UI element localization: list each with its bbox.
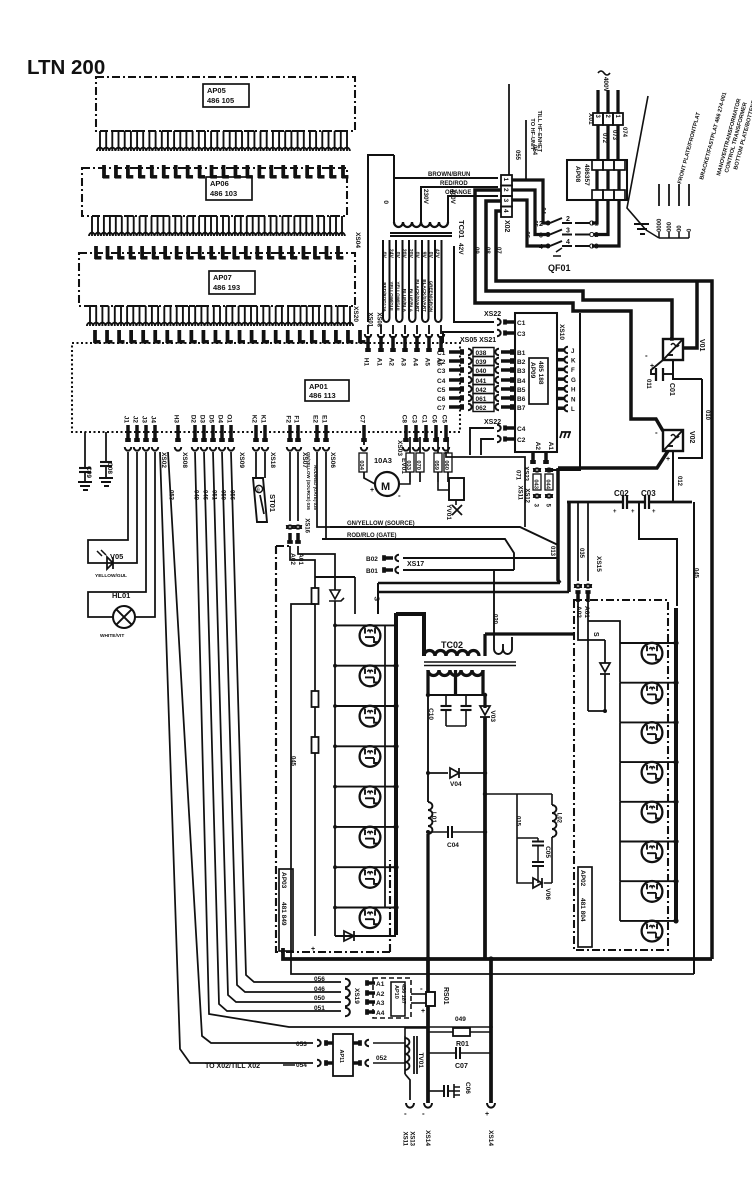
source rail and S label bbox=[377, 583, 379, 614]
TC01 secondary hairpin windings with voltage and colour labels bbox=[383, 240, 390, 322]
capacitor C06 with screen bbox=[428, 1090, 444, 1092]
bold pin row below AP06 bbox=[94, 246, 98, 259]
svg-text:XS22: XS22 bbox=[484, 311, 501, 318]
C10 rail bbox=[428, 694, 485, 696]
wire 015 and L02 C05 V06 block bbox=[485, 793, 552, 795]
svg-text:052: 052 bbox=[376, 1055, 387, 1062]
long wire bundle from AP01 down bbox=[168, 452, 313, 1043]
svg-text:C7: C7 bbox=[358, 415, 365, 424]
label AP03 481 849 bbox=[279, 869, 293, 951]
svg-text:0: 0 bbox=[382, 200, 389, 204]
block AP10 456 187 bbox=[373, 978, 411, 1018]
svg-text:+: + bbox=[652, 509, 656, 515]
svg-text:24V: 24V bbox=[387, 249, 393, 259]
svg-text:O1: O1 bbox=[225, 414, 232, 423]
svg-text:05: 05 bbox=[531, 220, 537, 227]
svg-text:V06: V06 bbox=[544, 888, 551, 900]
svg-text:42V: 42V bbox=[433, 249, 439, 259]
ground at AP09 bbox=[560, 432, 571, 438]
board AP09 485 188 bbox=[515, 313, 557, 452]
svg-text:A4: A4 bbox=[411, 358, 418, 367]
diode V07 bottom bbox=[335, 935, 396, 937]
inductor L01 bbox=[427, 773, 429, 802]
svg-text:XS03: XS03 bbox=[396, 440, 403, 456]
inductor L02 bbox=[551, 794, 553, 805]
terminal minus XS14 bbox=[424, 1103, 432, 1108]
svg-text:GREEN/GRON: GREEN/GRON bbox=[428, 281, 433, 313]
svg-text:θ: θ bbox=[257, 488, 260, 494]
AP03 FET cells bbox=[335, 624, 396, 626]
svg-text:YELLOW/GUL: YELLOW/GUL bbox=[389, 281, 394, 312]
svg-text:038: 038 bbox=[476, 350, 487, 357]
svg-text:000: 000 bbox=[664, 222, 670, 233]
svg-text:K: K bbox=[571, 358, 576, 365]
svg-text:485 188: 485 188 bbox=[537, 361, 544, 385]
svg-text:2: 2 bbox=[502, 188, 509, 192]
svg-text:TV01: TV01 bbox=[417, 1052, 424, 1068]
wire 045 left branch bbox=[291, 604, 694, 974]
terminal plus XS14 bbox=[487, 1103, 495, 1108]
AP03 internal top net bbox=[290, 546, 315, 577]
svg-text:BLACK/SVART: BLACK/SVART bbox=[415, 279, 420, 312]
TV01 top wire to bus bbox=[405, 1028, 428, 1036]
svg-text:L01: L01 bbox=[430, 812, 437, 824]
svg-text:20V: 20V bbox=[400, 249, 406, 259]
bold wire 09 to rectifier V02 bbox=[475, 190, 663, 431]
svg-text:1: 1 bbox=[502, 178, 509, 182]
svg-text:07: 07 bbox=[495, 247, 501, 254]
svg-text:XS10: XS10 bbox=[558, 324, 565, 340]
svg-text:AP10: AP10 bbox=[393, 985, 399, 999]
svg-text:XS04: XS04 bbox=[354, 232, 361, 248]
svg-text:B5: B5 bbox=[517, 387, 526, 394]
svg-text:LTN 200: LTN 200 bbox=[27, 56, 105, 79]
bold wire 06 X02-3 to QF01 bbox=[512, 200, 550, 246]
bold output minus rail down bbox=[426, 959, 430, 1103]
svg-text:010: 010 bbox=[704, 410, 710, 421]
svg-text:C7: C7 bbox=[437, 405, 446, 412]
svg-text:M: M bbox=[381, 481, 390, 493]
svg-text:045: 045 bbox=[289, 756, 295, 767]
svg-text:C8: C8 bbox=[400, 415, 407, 424]
svg-text:C5: C5 bbox=[437, 387, 446, 394]
wires E2 E1 to source gate lines bbox=[317, 452, 330, 527]
board AP05 bbox=[96, 77, 355, 131]
TC02 core bbox=[424, 661, 516, 663]
svg-text:XS11: XS11 bbox=[516, 486, 522, 501]
svg-text:9V: 9V bbox=[420, 252, 426, 259]
svg-text:C6: C6 bbox=[430, 415, 437, 424]
svg-text:2: 2 bbox=[566, 216, 570, 223]
svg-text:08: 08 bbox=[484, 247, 490, 254]
svg-text:AP06: AP06 bbox=[210, 179, 229, 188]
bold top corner to TC02 bbox=[396, 614, 424, 656]
svg-text:-: - bbox=[420, 984, 423, 993]
zener diode bbox=[334, 577, 336, 590]
svg-text:R01: R01 bbox=[456, 1041, 469, 1048]
svg-text:C1: C1 bbox=[517, 320, 526, 327]
ground symbol bbox=[634, 224, 649, 234]
bold wire 08 to rectifier V01 top bbox=[486, 201, 672, 339]
svg-text:C2: C2 bbox=[517, 437, 526, 444]
svg-text:J4: J4 bbox=[149, 416, 156, 424]
wires to V05 loop bbox=[88, 452, 128, 563]
diode V06 bbox=[533, 878, 542, 888]
AP09 bottom pins A2 A1 bbox=[531, 452, 535, 462]
bold wire C02 rail down to rail B bbox=[567, 502, 571, 592]
svg-text:0V: 0V bbox=[381, 252, 387, 259]
svg-text:AP02: AP02 bbox=[579, 870, 586, 887]
current transformer TV01 bbox=[404, 1036, 406, 1074]
svg-text:ST01: ST01 bbox=[268, 494, 277, 512]
svg-text:C3: C3 bbox=[437, 368, 446, 375]
svg-text:N: N bbox=[571, 396, 576, 403]
svg-text:051: 051 bbox=[314, 1005, 325, 1012]
connector XS04 bold pin row bbox=[102, 165, 106, 178]
svg-text:L02: L02 bbox=[555, 813, 561, 824]
svg-text:A4: A4 bbox=[376, 1010, 385, 1017]
svg-text:049: 049 bbox=[455, 1016, 466, 1023]
svg-text:S: S bbox=[372, 596, 379, 601]
wire pair source rails to XS15 bbox=[378, 582, 560, 585]
svg-text:XS14: XS14 bbox=[424, 1130, 431, 1146]
svg-text:4: 4 bbox=[566, 239, 570, 246]
AP03 gate bus bbox=[334, 625, 336, 936]
rectifier V01 bbox=[663, 339, 683, 360]
svg-text:020: 020 bbox=[491, 614, 497, 625]
svg-text:054: 054 bbox=[296, 1062, 307, 1069]
svg-text:0V: 0V bbox=[427, 252, 433, 259]
svg-text:XS09: XS09 bbox=[238, 452, 245, 468]
svg-text:09: 09 bbox=[473, 247, 479, 254]
terminal XS11 XS13 bbox=[405, 1074, 410, 1100]
svg-text:D3: D3 bbox=[198, 415, 205, 424]
svg-text:C2: C2 bbox=[437, 359, 446, 366]
C05 caps stacked bbox=[517, 837, 538, 839]
svg-text:XS19: XS19 bbox=[353, 988, 360, 1004]
wire 020 from B01 down to TC02 aux bbox=[493, 570, 495, 634]
svg-text:XS18: XS18 bbox=[269, 452, 276, 468]
svg-text:073: 073 bbox=[611, 130, 617, 141]
rectifier V02 bbox=[663, 430, 683, 451]
bold output plus rail down bbox=[489, 959, 493, 1103]
bold wire 05 X02-2 to QF01 bbox=[512, 190, 550, 235]
svg-text:AP09: AP09 bbox=[529, 362, 536, 379]
wire 045 long right vertical bbox=[693, 502, 695, 974]
svg-text:GN/YELLOW (SOURCE) 036: GN/YELLOW (SOURCE) 036 bbox=[306, 452, 311, 511]
svg-text:E2: E2 bbox=[311, 415, 318, 423]
TC01 secondary to AP01 cups bbox=[367, 325, 369, 334]
block AP08 486357 bbox=[567, 160, 627, 200]
svg-text:TC02: TC02 bbox=[441, 640, 463, 650]
svg-text:XS16: XS16 bbox=[303, 518, 309, 533]
svg-text:C07: C07 bbox=[455, 1063, 468, 1070]
svg-text:A1: A1 bbox=[375, 358, 382, 367]
resistor R top bbox=[312, 588, 319, 604]
svg-text:074: 074 bbox=[621, 127, 627, 138]
TC01 core bbox=[390, 232, 452, 234]
svg-text:XS08: XS08 bbox=[181, 452, 188, 468]
svg-text:RED/ROD13A: RED/ROD13A bbox=[382, 282, 387, 312]
AP02 protection diode loop bbox=[578, 602, 605, 640]
svg-text:42V: 42V bbox=[457, 243, 464, 255]
wire from AP09 XS10 side down to V02 output bbox=[547, 313, 580, 470]
svg-text:C05: C05 bbox=[544, 846, 551, 858]
TC02 aux winding bbox=[494, 634, 512, 654]
wires into XS22 lower bbox=[470, 428, 494, 455]
svg-text:0V: 0V bbox=[414, 252, 420, 259]
board AP02 dash-dot outline bbox=[574, 600, 668, 950]
svg-text:054: 054 bbox=[531, 145, 537, 156]
svg-text:044: 044 bbox=[545, 479, 551, 489]
svg-text:486 113: 486 113 bbox=[309, 391, 336, 400]
svg-text:062: 062 bbox=[476, 405, 487, 412]
svg-text:A2: A2 bbox=[534, 442, 541, 451]
svg-text:V03: V03 bbox=[489, 710, 496, 722]
svg-text:X02: X02 bbox=[503, 220, 510, 233]
diode V04 bbox=[426, 771, 430, 775]
connector pins below AP05 bbox=[100, 131, 347, 151]
svg-text:C3: C3 bbox=[517, 331, 526, 338]
svg-text:YELLOW/GUL: YELLOW/GUL bbox=[95, 573, 127, 579]
svg-text:+: + bbox=[421, 1008, 425, 1015]
svg-text:013: 013 bbox=[549, 546, 555, 557]
svg-text:XS06: XS06 bbox=[329, 452, 336, 468]
svg-text:040: 040 bbox=[476, 368, 487, 375]
svg-text:4: 4 bbox=[502, 209, 509, 213]
bold wire V02 plus output bbox=[558, 451, 668, 468]
board AP03 dash-dot outline bbox=[276, 546, 390, 952]
wire 049 long to R01 bridge bbox=[195, 452, 428, 1027]
svg-text:F2: F2 bbox=[284, 415, 291, 423]
wires 072 073 074 bbox=[596, 125, 599, 160]
wires 033 070 059 060 boxes bbox=[406, 453, 414, 472]
shunt RS01 bbox=[426, 992, 435, 1006]
svg-text:D2: D2 bbox=[189, 415, 196, 424]
svg-text:-: - bbox=[645, 351, 648, 360]
svg-text:C6: C6 bbox=[437, 396, 446, 403]
svg-text:039: 039 bbox=[476, 359, 487, 366]
svg-text:230V: 230V bbox=[422, 189, 429, 205]
bold output rail right from V03 down bbox=[483, 717, 487, 959]
svg-text:-: - bbox=[655, 428, 658, 437]
svg-text:034: 034 bbox=[358, 460, 364, 470]
resistor R low bbox=[312, 737, 319, 753]
wire TC01 42V to XS22 C1 bbox=[454, 246, 494, 322]
svg-text:L: L bbox=[571, 406, 575, 413]
solenoid valve YV01 bbox=[449, 478, 464, 500]
svg-text:AP07: AP07 bbox=[213, 273, 232, 282]
svg-text:486 105: 486 105 bbox=[207, 96, 234, 105]
resistor R mid bbox=[312, 691, 319, 707]
AP02 bold bus bbox=[674, 608, 678, 922]
svg-text:04: 04 bbox=[539, 207, 545, 214]
svg-text:XS05 XS21: XS05 XS21 bbox=[460, 337, 496, 344]
svg-text:C09: C09 bbox=[85, 466, 92, 478]
svg-text:B4: B4 bbox=[517, 378, 526, 385]
ground collector bbox=[659, 237, 689, 239]
wire B02 to 013 bbox=[403, 557, 558, 559]
bold pin row into AP01 top edge bbox=[93, 330, 97, 343]
svg-text:WHITE/VIT: WHITE/VIT bbox=[100, 633, 124, 639]
bold from TC02 right to AP02 bbox=[483, 634, 486, 656]
svg-text:E1: E1 bbox=[320, 415, 327, 423]
svg-text:C1: C1 bbox=[420, 415, 427, 424]
capacitor C09 bbox=[84, 432, 86, 468]
svg-text:C4: C4 bbox=[517, 426, 526, 433]
capacitor C04 bbox=[426, 830, 430, 834]
svg-text:XS13: XS13 bbox=[408, 1131, 414, 1146]
wires 046 051 050 056 to XS19 bbox=[222, 452, 341, 992]
wire to AP02 top right bbox=[639, 502, 677, 606]
svg-text:012: 012 bbox=[676, 476, 682, 487]
wires F2 F1 down to XS16 bbox=[289, 452, 291, 521]
svg-text:K2: K2 bbox=[250, 415, 257, 424]
svg-text:060: 060 bbox=[443, 460, 449, 470]
wires to HL01 bbox=[88, 452, 146, 617]
svg-text:481 804: 481 804 bbox=[579, 898, 586, 922]
svg-text:D5: D5 bbox=[207, 415, 214, 424]
bold bottom bus bbox=[283, 948, 712, 959]
svg-text:456 187: 456 187 bbox=[400, 984, 406, 1004]
svg-text:0V: 0V bbox=[394, 252, 400, 259]
board AP06 bbox=[82, 168, 347, 216]
ground wires with 0 markers bbox=[658, 184, 660, 206]
resistor R01 bbox=[428, 1031, 453, 1033]
svg-text:G: G bbox=[571, 377, 576, 384]
svg-text:A1: A1 bbox=[547, 442, 554, 451]
TC02 secondary bold bbox=[428, 670, 483, 676]
svg-text:+: + bbox=[311, 946, 315, 953]
svg-text:V04: V04 bbox=[450, 781, 462, 788]
svg-text:AP05: AP05 bbox=[207, 86, 226, 95]
wire to XS22 C3 bbox=[443, 332, 494, 343]
svg-text:C1: C1 bbox=[437, 350, 446, 357]
svg-text:F1: F1 bbox=[292, 415, 299, 423]
svg-text:AP03: AP03 bbox=[280, 872, 287, 889]
wire 071 bbox=[446, 452, 525, 527]
connector X02 bbox=[501, 175, 512, 186]
svg-text:AP01: AP01 bbox=[309, 382, 328, 391]
svg-text:XS15: XS15 bbox=[595, 556, 602, 572]
svg-text:TC01: TC01 bbox=[457, 220, 466, 238]
svg-text:XS20: XS20 bbox=[352, 306, 359, 322]
svg-text:B02: B02 bbox=[366, 556, 378, 563]
svg-text:+: + bbox=[370, 487, 374, 494]
svg-text:3: 3 bbox=[502, 199, 509, 203]
diode V03 bbox=[483, 695, 486, 708]
board AP07 bbox=[79, 253, 355, 306]
svg-text:043: 043 bbox=[533, 479, 539, 489]
svg-text:A3: A3 bbox=[399, 358, 406, 367]
svg-text:H: H bbox=[571, 387, 576, 394]
svg-text:XS14: XS14 bbox=[487, 1130, 494, 1146]
svg-text:+: + bbox=[631, 509, 635, 515]
svg-text:B2: B2 bbox=[517, 359, 526, 366]
svg-text:C08: C08 bbox=[106, 462, 113, 474]
svg-text:QF01: QF01 bbox=[548, 263, 571, 273]
svg-text:0000: 0000 bbox=[654, 219, 660, 233]
svg-text:C01: C01 bbox=[668, 383, 675, 396]
block AP11 bbox=[333, 1034, 353, 1076]
svg-text:10A3: 10A3 bbox=[374, 456, 392, 465]
svg-text:3: 3 bbox=[566, 228, 570, 235]
svg-text:059: 059 bbox=[433, 460, 439, 470]
wires into AP02 chain bbox=[588, 621, 620, 643]
svg-text:F: F bbox=[571, 367, 575, 374]
transformer TC01 primary bbox=[394, 222, 448, 227]
svg-text:YV01: YV01 bbox=[445, 504, 452, 520]
svg-text:-: - bbox=[422, 1109, 425, 1118]
svg-text:XS11: XS11 bbox=[401, 1132, 407, 1147]
svg-text:055: 055 bbox=[514, 150, 520, 161]
svg-text:056: 056 bbox=[314, 976, 325, 983]
svg-text:486 193: 486 193 bbox=[213, 283, 240, 292]
svg-text:042: 042 bbox=[476, 387, 487, 394]
svg-text:RS01: RS01 bbox=[442, 987, 449, 1005]
svg-text:011: 011 bbox=[645, 379, 651, 389]
bold wire 04 X02-1 to QF01 bbox=[512, 180, 550, 223]
svg-text:A2: A2 bbox=[387, 358, 394, 367]
svg-text:+: + bbox=[666, 456, 670, 463]
svg-text:+: + bbox=[650, 363, 654, 370]
svg-text:072: 072 bbox=[601, 133, 607, 144]
wire 0V tap to AP01 H1 bbox=[368, 155, 394, 322]
svg-text:V01: V01 bbox=[698, 339, 705, 352]
svg-text:C3: C3 bbox=[410, 415, 417, 424]
wire B01 to gate bbox=[403, 569, 514, 571]
AP02 FET cells bbox=[620, 642, 676, 644]
svg-text:053: 053 bbox=[296, 1041, 307, 1048]
bold wire 07 to rectifier V01 right and main bus bbox=[496, 211, 712, 959]
AP01 pins H1 A1-A6 bbox=[366, 336, 370, 350]
svg-text:YELLOW/GUL: YELLOW/GUL bbox=[395, 281, 400, 312]
TC02 centre tap bbox=[454, 670, 457, 695]
svg-text:A3: A3 bbox=[376, 1000, 385, 1007]
svg-text:+: + bbox=[485, 1111, 489, 1118]
svg-text:XS17: XS17 bbox=[407, 561, 424, 568]
svg-text:20V: 20V bbox=[407, 249, 413, 259]
svg-text:C4: C4 bbox=[437, 378, 446, 385]
board AP01 486 113 bbox=[72, 343, 460, 432]
svg-text:A01: A01 bbox=[583, 606, 590, 618]
svg-text:J1: J1 bbox=[122, 416, 129, 424]
svg-text:S: S bbox=[592, 632, 599, 637]
wire 010 V01 bottom to V02 bbox=[673, 360, 702, 379]
svg-text:B7: B7 bbox=[517, 405, 526, 412]
svg-text:C06: C06 bbox=[464, 1082, 471, 1094]
svg-text:K1: K1 bbox=[259, 415, 266, 424]
svg-text:TO X02/TILL X02: TO X02/TILL X02 bbox=[205, 1063, 260, 1070]
svg-text:BLACK/SVART: BLACK/SVART bbox=[422, 279, 427, 312]
wire from diode bottom bbox=[588, 710, 605, 712]
svg-text:BLUE/BLA: BLUE/BLA bbox=[402, 289, 407, 313]
svg-text:481 849: 481 849 bbox=[280, 902, 287, 926]
svg-text:041: 041 bbox=[476, 378, 487, 385]
bold wires AP08 to QF01 bbox=[595, 170, 598, 190]
svg-text:B6: B6 bbox=[517, 396, 526, 403]
svg-text:C04: C04 bbox=[447, 842, 459, 849]
connector pins below AP07 XS20 bbox=[90, 306, 350, 326]
svg-text:C5: C5 bbox=[440, 415, 447, 424]
AP03 bold drain bus bbox=[394, 613, 398, 935]
svg-text:06: 06 bbox=[523, 231, 529, 238]
svg-text:D4: D4 bbox=[216, 415, 223, 424]
svg-text:061: 061 bbox=[476, 396, 487, 403]
connector pins below AP06 bbox=[92, 216, 342, 236]
svg-text:A1: A1 bbox=[376, 981, 385, 988]
svg-text:-: - bbox=[398, 491, 401, 500]
